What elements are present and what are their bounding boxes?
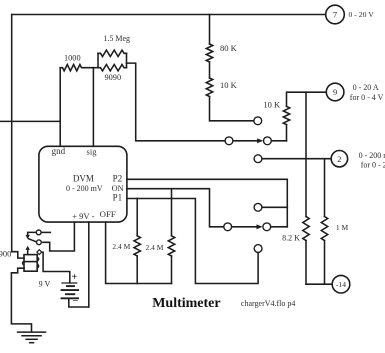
svg-text:9 V: 9 V [39,280,51,289]
svg-text:1000: 1000 [64,53,81,62]
svg-text:Multimeter: Multimeter [152,296,220,311]
svg-text:ON: ON [112,184,124,193]
svg-text:OFF: OFF [100,209,116,219]
svg-text:1 M: 1 M [336,223,349,232]
svg-text:chargerV4.flo p4: chargerV4.flo p4 [241,299,296,308]
svg-text:gnd: gnd [52,146,66,156]
svg-text:9090: 9090 [105,73,122,82]
svg-text:−: − [72,296,78,307]
svg-text:80 K: 80 K [220,43,238,53]
svg-text:0 - 200 mV: 0 - 200 mV [66,184,103,193]
svg-text:for 0 - 4 V: for 0 - 4 V [350,93,384,102]
svg-text:P1: P1 [113,193,123,203]
svg-text:sig: sig [87,147,98,157]
svg-text:0 - 20 A: 0 - 20 A [353,83,379,92]
svg-text:2.4 M: 2.4 M [146,243,164,252]
svg-text:7: 7 [333,10,337,20]
svg-text:2.4 M: 2.4 M [112,242,130,251]
svg-text:+: + [72,272,78,283]
svg-text:P2: P2 [113,173,123,183]
svg-text:1.5 Meg: 1.5 Meg [103,34,130,43]
svg-text:10 K: 10 K [220,80,238,90]
svg-text:9: 9 [333,87,337,97]
svg-text:0 - 200 mV: 0 - 200 mV [359,151,385,160]
svg-text:DVM: DVM [73,174,94,184]
svg-text:+ 9V -: + 9V - [72,211,94,221]
svg-text:8.2 K: 8.2 K [282,234,300,243]
svg-text:0 - 20 V: 0 - 20 V [349,10,375,19]
svg-text:for 0 - 2 V: for 0 - 2 V [361,160,385,169]
svg-text:10 K: 10 K [263,100,281,110]
svg-text:900: 900 [0,249,11,259]
svg-text:-14: -14 [336,280,346,289]
svg-text:2: 2 [337,154,341,164]
